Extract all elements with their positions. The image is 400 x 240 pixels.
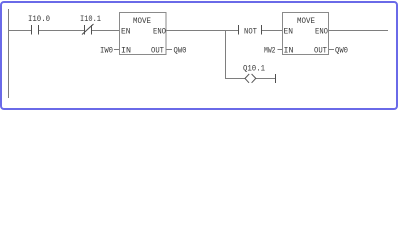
wire coil to end tick <box>256 78 275 80</box>
branch end tick <box>275 74 277 83</box>
svg-text:NOT: NOT <box>244 27 257 37</box>
wire MW2 tick to MOVE2 IN <box>278 49 283 51</box>
svg-text:IN: IN <box>284 46 294 56</box>
svg-text:Q10.1: Q10.1 <box>243 64 265 74</box>
wire branch horizontal to coil <box>225 78 245 80</box>
svg-text:EN: EN <box>121 27 131 37</box>
wire NOT to MOVE2 EN <box>262 30 283 32</box>
pane border frame <box>1 2 397 109</box>
svg-text:ENO: ENO <box>315 27 328 37</box>
svg-text:QW0: QW0 <box>174 46 187 56</box>
svg-text:I10.1: I10.1 <box>80 14 101 24</box>
wire MOVE1 ENO to NOT (junction at x=225) <box>166 30 238 32</box>
wire branch vertical from junction <box>225 31 227 79</box>
wire rail to contact I10.0 <box>8 30 31 32</box>
wire IW0 tick to MOVE1 IN <box>114 49 120 51</box>
svg-text:IN: IN <box>121 46 131 56</box>
MOVE block U2 box <box>283 13 329 55</box>
pane background <box>0 0 400 112</box>
svg-text:OUT: OUT <box>314 46 327 56</box>
coil Q10.1 symbol <box>245 74 256 83</box>
svg-text:ENO: ENO <box>153 27 166 37</box>
NOT contact right bar <box>261 25 263 35</box>
NOT contact left bar <box>238 25 240 35</box>
contact I10.1 left bar <box>84 25 86 35</box>
MOVE block U1 box <box>120 13 167 55</box>
wire MOVE2 OUT tick to QW0 <box>329 49 335 51</box>
svg-text:I10.0: I10.0 <box>28 14 50 24</box>
contact I10.0 left bar <box>31 25 33 35</box>
svg-text:MOVE: MOVE <box>133 16 151 26</box>
contact I10.1 NC slash <box>82 24 94 35</box>
left power rail <box>8 9 10 98</box>
svg-text:QW0: QW0 <box>335 46 348 56</box>
svg-text:MW2: MW2 <box>264 46 276 56</box>
wire I10.1 to MOVE1 EN <box>92 30 120 32</box>
svg-text:IW0: IW0 <box>100 46 113 56</box>
svg-text:OUT: OUT <box>151 46 164 56</box>
wire I10.0 to I10.1 <box>39 30 84 32</box>
contact I10.0 right bar <box>38 25 40 35</box>
contact I10.1 right bar <box>91 25 93 35</box>
svg-text:MOVE: MOVE <box>297 16 315 26</box>
wire MOVE2 ENO to right end <box>329 30 389 32</box>
wire MOVE1 OUT tick to QW0 <box>166 49 172 51</box>
svg-text:EN: EN <box>284 27 294 37</box>
